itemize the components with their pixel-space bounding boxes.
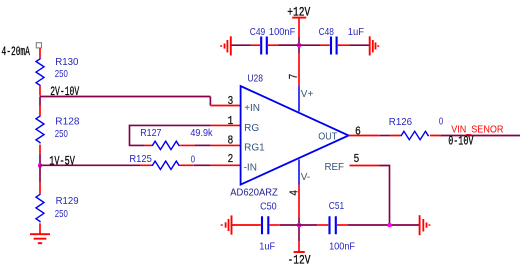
pin 2 -IN stub xyxy=(211,164,241,166)
ground top-left xyxy=(221,36,231,55)
ground bottom-left xyxy=(222,215,232,234)
svg-text:5: 5 xyxy=(354,152,360,166)
ground top-right xyxy=(370,36,379,55)
svg-text:AD620ARZ: AD620ARZ xyxy=(230,186,278,198)
top rail wires xyxy=(231,44,370,46)
svg-text:1uF: 1uF xyxy=(348,27,364,38)
wire REF down to bottom rail xyxy=(380,166,390,226)
svg-text:0-10V: 0-10V xyxy=(448,135,474,149)
wire 1V-5V horizontal xyxy=(40,164,140,166)
wire R127 to pin8 xyxy=(195,144,211,146)
svg-text:6: 6 xyxy=(355,125,361,139)
power -12V xyxy=(298,225,300,241)
resistor R129 xyxy=(39,182,41,233)
svg-text:U28: U28 xyxy=(247,72,263,84)
resistor R130 xyxy=(39,48,41,95)
terminal 4-20mA input xyxy=(36,43,41,48)
svg-text:C50: C50 xyxy=(260,202,277,213)
wire vertical below 2V-10V node xyxy=(39,97,41,106)
junction REF / bottom rail xyxy=(388,223,392,227)
wire R126 to edge xyxy=(441,135,520,137)
svg-text:4-20mA: 4-20mA xyxy=(2,45,31,59)
svg-text:250: 250 xyxy=(55,69,68,80)
pin 7 V+ vertical xyxy=(298,86,300,112)
svg-text:-IN: -IN xyxy=(244,162,257,173)
svg-text:V-: V- xyxy=(301,172,310,183)
pin 5 REF stub xyxy=(350,165,380,167)
pin 8 RG1 stub xyxy=(211,144,241,146)
wire to 1V-5V node xyxy=(39,154,41,165)
svg-text:RG1: RG1 xyxy=(244,143,265,154)
svg-text:RG: RG xyxy=(244,123,259,134)
ground bottom-right xyxy=(420,215,430,235)
svg-text:3: 3 xyxy=(228,94,234,108)
op-amp U28 AD620ARZ triangle xyxy=(241,86,349,185)
svg-text:49.9k: 49.9k xyxy=(190,128,213,139)
capacitor C48 xyxy=(320,44,330,46)
svg-text:1uF: 1uF xyxy=(259,242,275,253)
svg-text:0: 0 xyxy=(439,116,444,127)
resistor R128 xyxy=(39,106,41,154)
svg-text:REF: REF xyxy=(325,162,345,173)
svg-text:250: 250 xyxy=(55,129,68,140)
pin 6 OUT stub xyxy=(349,135,380,137)
wire 2V-10V corner down to pin3 xyxy=(209,97,211,106)
capacitor C49 xyxy=(251,44,261,46)
svg-text:8: 8 xyxy=(228,134,234,148)
svg-text:2: 2 xyxy=(228,152,234,166)
wire 1V-5V node down to R129 xyxy=(39,165,41,182)
svg-text:C48: C48 xyxy=(319,27,335,38)
svg-text:R129: R129 xyxy=(56,196,79,207)
svg-text:R126: R126 xyxy=(389,117,413,128)
svg-text:R127: R127 xyxy=(140,128,162,139)
svg-text:+IN: +IN xyxy=(244,103,260,114)
resistor R125 xyxy=(140,164,194,166)
svg-text:C51: C51 xyxy=(329,201,345,212)
svg-text:R128: R128 xyxy=(55,116,80,127)
svg-text:100nF: 100nF xyxy=(269,27,295,38)
wire R125 to pin2 xyxy=(194,164,211,166)
svg-text:V+: V+ xyxy=(301,89,314,100)
svg-text:1: 1 xyxy=(228,114,234,128)
svg-text:C49: C49 xyxy=(250,27,266,38)
junction top rail xyxy=(297,43,301,47)
capacitor C51 xyxy=(317,224,328,226)
resistor R127 xyxy=(145,144,195,146)
resistor R126 xyxy=(390,135,440,137)
svg-text:R130: R130 xyxy=(55,57,79,68)
svg-text:1V-5V: 1V-5V xyxy=(49,154,75,168)
svg-text:R125: R125 xyxy=(129,154,152,165)
wire 2V-10V horizontal xyxy=(40,96,210,98)
pin 1 RG stub xyxy=(211,124,241,126)
junction bottom rail xyxy=(297,223,301,227)
wire OUT to R126 xyxy=(380,135,391,137)
svg-text:-12V: -12V xyxy=(288,253,311,267)
wire pin1 loop to R127 xyxy=(130,125,211,145)
pin 3 stub xyxy=(210,105,240,107)
capacitor C50 xyxy=(232,224,261,226)
junction 1V-5V xyxy=(38,163,42,167)
pin 4 V- vertical xyxy=(298,160,300,185)
svg-text:100nF: 100nF xyxy=(329,242,355,253)
bottom rail wires xyxy=(232,224,420,226)
svg-text:0: 0 xyxy=(191,154,196,165)
svg-text:250: 250 xyxy=(55,209,68,220)
svg-text:OUT: OUT xyxy=(318,131,337,142)
ground (earth) below R129 xyxy=(30,234,50,243)
